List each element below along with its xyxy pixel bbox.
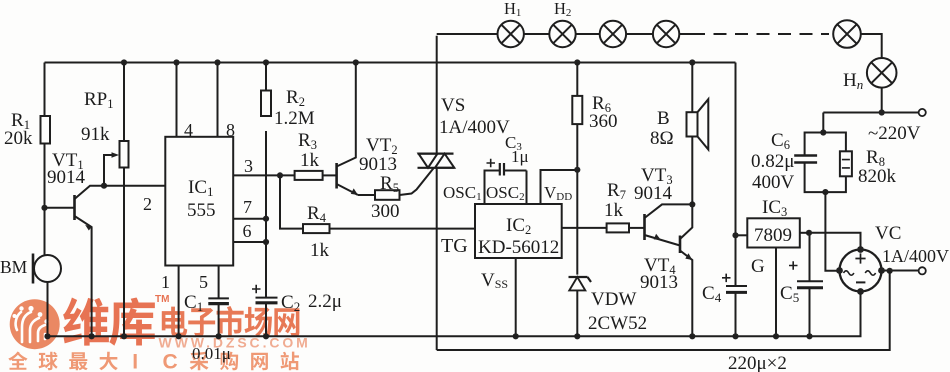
svg-text:H2: H2 [554,0,571,19]
resistor R6 [572,63,617,275]
svg-text:C2: C2 [281,292,300,314]
svg-text:BM: BM [0,257,28,277]
wire dashed lamp chain [679,33,829,35]
svg-text:C1: C1 [184,292,203,314]
wire pin 5 [199,266,219,299]
wire +9V top rail [45,59,736,65]
wire pin 3 [233,156,294,178]
svg-text:VSS: VSS [481,270,508,291]
svg-text:OSC1: OSC1 [443,183,482,203]
wire pin 7 [233,197,266,219]
resistor R2 [261,63,315,298]
svg-text:TM: TM [155,294,169,305]
capacitor C5 [780,230,823,340]
microphone BM [0,208,61,340]
svg-text:9013: 9013 [640,272,678,293]
capacitor C6 [751,113,826,194]
lamp 4 [626,21,679,47]
lamp H2 [524,0,576,47]
lamp 3 [576,21,626,47]
wire 7809 output rail [732,63,738,286]
svg-text:2: 2 [143,194,152,214]
transistor VT4 [640,201,695,339]
zener diode VDW [569,277,648,339]
lamp Hn [843,58,897,112]
svg-text:0.01μ: 0.01μ [192,344,231,363]
IC U2 KD-56012 [441,183,572,291]
wire pin 1 [161,266,182,340]
svg-text:R3: R3 [298,130,317,152]
svg-text:1A/400V: 1A/400V [439,117,510,138]
svg-text:KD-56012: KD-56012 [478,237,559,258]
svg-text:1μ: 1μ [511,147,529,166]
svg-text:555: 555 [187,200,216,221]
speaker B [650,63,708,205]
wire to bridge AC input [825,192,840,271]
svg-text:820k: 820k [858,166,897,187]
resistor R7 [562,180,645,232]
svg-text:G: G [751,256,765,277]
svg-text:C6: C6 [771,130,790,152]
svg-text:1A/400V: 1A/400V [882,246,949,266]
svg-text:8: 8 [226,120,235,140]
capacitor C4 [702,274,747,340]
svg-text:C5: C5 [780,283,799,305]
svg-text:C: C [163,351,178,372]
svg-text:9014: 9014 [634,183,673,204]
svg-text:H1: H1 [504,0,521,19]
wire AC live input [823,109,926,144]
svg-text:91k: 91k [81,124,110,145]
svg-text:0.82μ: 0.82μ [751,151,794,172]
lamp H1 [437,0,524,47]
svg-text:R7: R7 [607,180,626,202]
svg-text:R4: R4 [307,203,327,225]
wire pin 8 [218,63,236,141]
svg-text:1k: 1k [604,200,624,221]
svg-text:VDD: VDD [544,183,572,203]
svg-text:VS: VS [441,95,465,116]
svg-text:2.2μ: 2.2μ [308,291,342,312]
watermark text 维库 [63,297,109,345]
svg-text:2CW52: 2CW52 [588,313,647,334]
watermark logo [10,299,60,349]
wire Vdd [541,167,581,204]
rectifier bridge VC [809,223,949,336]
svg-text:1k: 1k [310,240,330,261]
resistor R8 [822,133,896,196]
wire neutral outer [437,271,890,372]
svg-text:IC2: IC2 [506,215,531,237]
lamp chain end [833,20,882,58]
svg-text:7: 7 [243,197,252,217]
svg-text:RP1: RP1 [84,89,114,111]
svg-text:300: 300 [371,201,400,222]
svg-text:3: 3 [244,156,253,176]
svg-text:~220V: ~220V [868,123,921,144]
transistor VT2 [337,63,398,196]
svg-text:R5: R5 [380,173,399,195]
transistor VT3 [634,165,692,246]
watermark text 全球最大IC采购网站 [8,351,27,369]
op-amp U1 555 timer IC1 [165,137,233,266]
resistor R3 [295,130,337,180]
svg-text:5: 5 [199,272,208,292]
svg-text:20k: 20k [4,128,33,149]
capacitor C2 [252,285,342,340]
resistor R5 [358,168,434,222]
svg-text:R2: R2 [286,87,305,109]
svg-text:9013: 9013 [359,154,397,175]
svg-text:I: I [132,351,138,372]
svg-text:Hn: Hn [843,70,863,92]
svg-text:VC: VC [875,223,901,244]
triac VS [418,36,511,350]
watermark text 电子市场网 [162,307,187,337]
svg-text:IC3: IC3 [762,197,787,219]
transistor VT1 [41,150,104,339]
svg-text:9014: 9014 [47,167,86,188]
wire Vss [513,258,519,339]
wire pin 6 [233,221,266,242]
svg-text:IC1: IC1 [188,177,214,199]
svg-text:C4: C4 [702,283,722,305]
svg-text:400V: 400V [752,172,795,193]
svg-text:1k: 1k [300,150,320,171]
svg-text:7809: 7809 [754,225,792,246]
svg-text:4: 4 [184,120,193,140]
svg-text:220μ×2: 220μ×2 [728,353,787,372]
resistor R4 [280,175,475,261]
svg-text:VDW: VDW [591,289,636,310]
svg-text:OSC2: OSC2 [486,183,525,203]
svg-text:1.2M: 1.2M [274,108,315,129]
svg-text:TG: TG [441,235,468,257]
capacitor C1 [184,292,231,363]
wire IC1 pin 2 [104,186,165,214]
svg-text:8Ω: 8Ω [650,128,674,149]
svg-text:1: 1 [161,272,170,292]
wire ground bus [46,292,861,337]
resistor R1 [4,63,50,208]
capacitor C3 [485,133,529,204]
potentiometer RP1 [81,63,129,340]
svg-text:360: 360 [589,111,618,132]
wire pin 4 [177,63,194,141]
svg-text:B: B [657,108,670,129]
svg-text:6: 6 [243,221,252,241]
regulator IC3 7809 [736,197,810,339]
